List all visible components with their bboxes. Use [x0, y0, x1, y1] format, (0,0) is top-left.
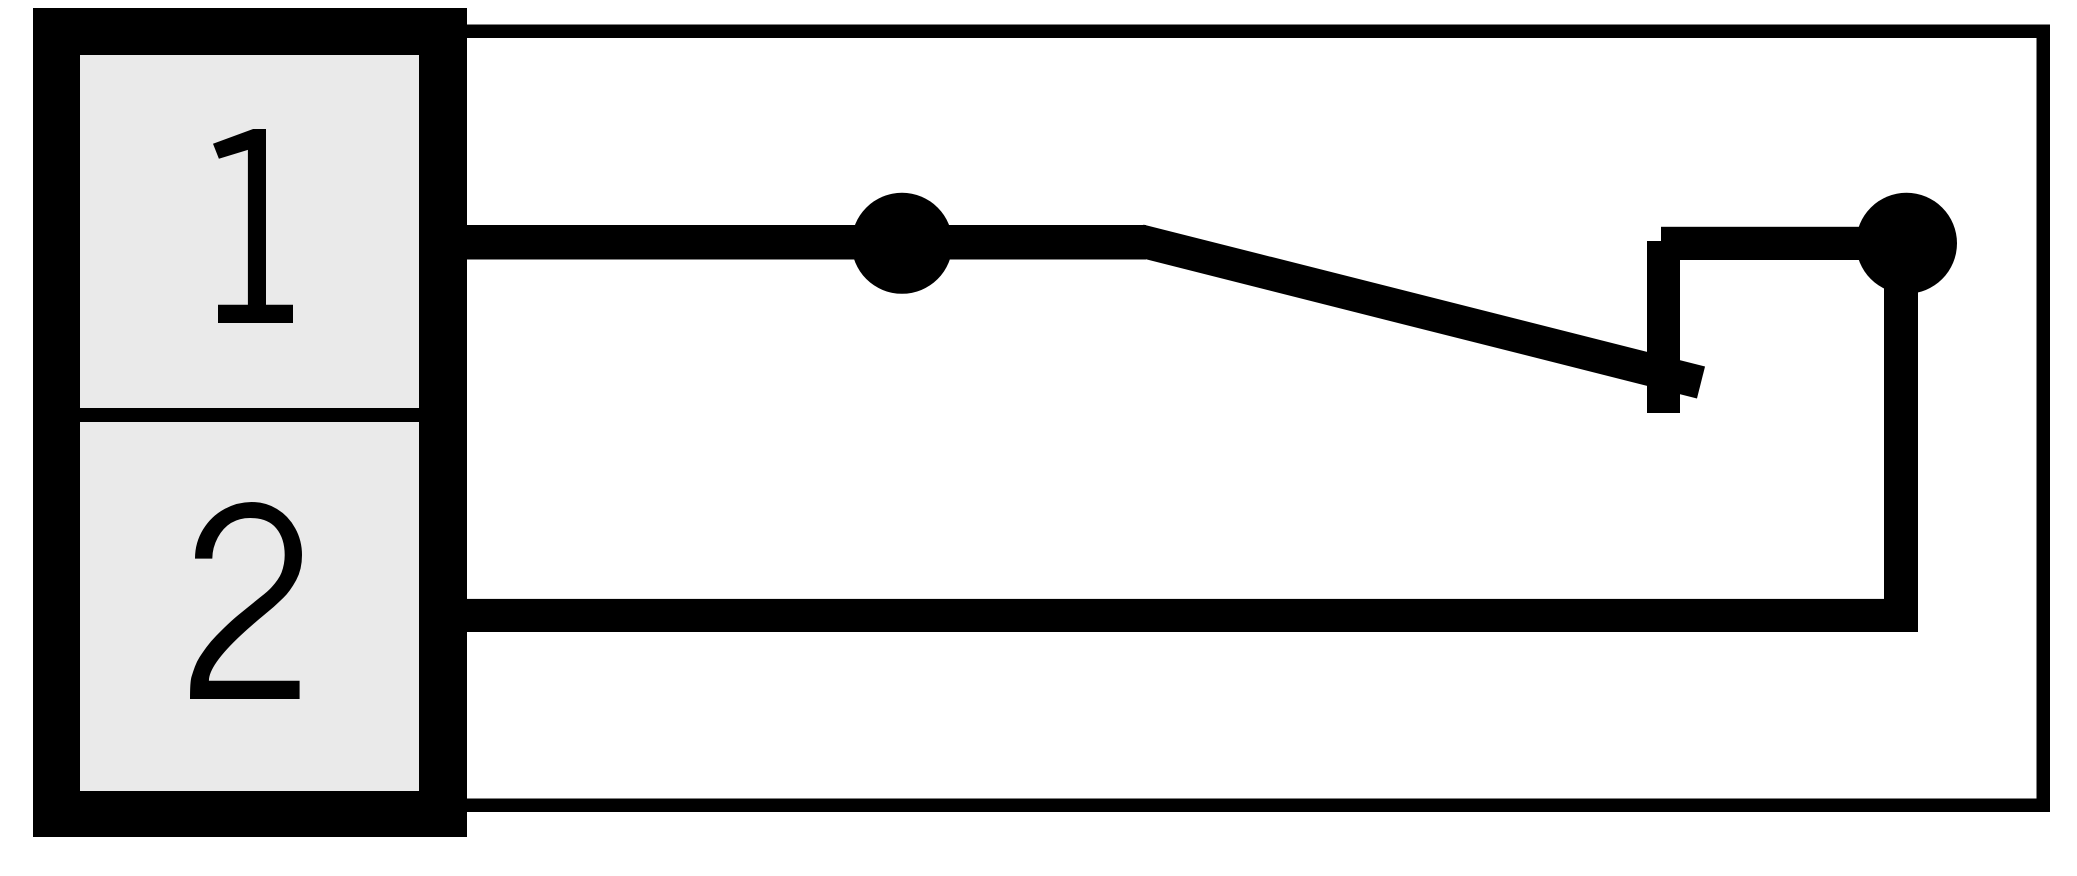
wire: contact to right junction	[1661, 227, 1906, 260]
switch blade SW1	[1140, 241, 1702, 383]
junction dot (left, on pin 1 wire)	[852, 193, 953, 294]
pin number 2	[190, 502, 302, 699]
wire: right vertical drop	[1884, 243, 1918, 632]
junction dot (right)	[1856, 193, 1957, 294]
enclosure outline box	[455, 25, 2050, 813]
pin 2 cell	[80, 422, 419, 791]
pin 1 cell	[80, 55, 419, 408]
wire: bottom return to pin 2	[467, 599, 1918, 632]
connector J1 body	[33, 8, 467, 837]
wire: pin 1 to switch	[467, 225, 1146, 260]
pin number 1	[213, 129, 293, 323]
switch fixed contact bar	[1647, 241, 1680, 413]
